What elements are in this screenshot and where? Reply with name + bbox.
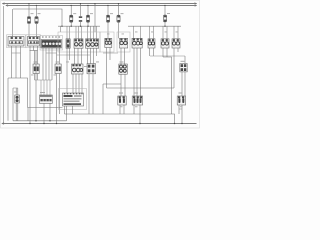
jog y50.5	[30, 50, 38, 52]
container X-box 7	[100, 32, 114, 52]
wire drops below X4	[67, 48, 70, 93]
B2 feeder drops	[41, 80, 50, 95]
label B5	[134, 93, 138, 94]
container A1 box	[59, 89, 87, 110]
wire drops below K7	[163, 48, 167, 57]
net y107.5	[28, 107, 63, 109]
riser x28 to net G	[27, 108, 29, 121]
mid jog y53 left	[46, 52, 57, 54]
jog x171.5 to bus	[172, 114, 175, 124]
fuse F1	[27, 4, 30, 37]
wire drops below K5 to B5	[134, 48, 141, 96]
relay K1	[74, 39, 83, 48]
wire drops below X6	[182, 72, 185, 96]
fuse holder R1	[33, 64, 39, 74]
connector X4 (narrow)	[66, 39, 70, 48]
net y84	[103, 83, 121, 85]
connector X5	[87, 64, 96, 74]
relay K4	[120, 38, 128, 48]
container X-box 3	[40, 36, 63, 51]
wire drops below K4 to R5	[121, 48, 125, 64]
connector block X1	[8, 37, 24, 47]
mid jog y55	[57, 54, 91, 56]
control unit A1 (text box)	[63, 93, 84, 106]
mid jog y53 right	[103, 52, 118, 54]
net E drops	[61, 26, 97, 38]
relay K10	[119, 64, 128, 74]
wire drops below X1	[12, 46, 21, 78]
relay K5	[132, 38, 142, 48]
motor M2	[132, 96, 142, 105]
connector X6	[180, 64, 187, 72]
fuse F5	[106, 5, 109, 38]
wire drops below K10	[121, 74, 125, 96]
relay K3	[105, 38, 112, 47]
wires below M3	[179, 105, 182, 124]
label B4	[119, 93, 123, 94]
wire drops below X3	[43, 48, 60, 80]
junction dots top-left	[28, 3, 37, 6]
wire drops below K9 to B3	[73, 74, 82, 93]
relay K9	[72, 64, 84, 74]
label K10	[120, 62, 124, 63]
wire drops below X5	[89, 74, 93, 114]
wire drops below K6	[150, 48, 154, 56]
power bus 15 (top rail B)	[6, 4, 197, 6]
container X-box 2	[26, 35, 41, 48]
fuse F7	[163, 5, 166, 26]
relay K2	[86, 39, 99, 48]
lamp E1	[13, 88, 19, 121]
net G (y120)	[13, 120, 67, 122]
wires below A1	[65, 106, 73, 121]
fuse F2	[35, 5, 38, 36]
riser to R6	[184, 56, 186, 64]
motor M3	[177, 96, 185, 105]
motor M1	[118, 96, 126, 105]
net D distribution (right)	[128, 25, 181, 27]
jog y57 and long drop x171.5	[163, 57, 172, 114]
feeders to R1	[35, 51, 38, 65]
riser x36 to net G	[35, 51, 37, 121]
ground bus (bottom rail)	[2, 123, 197, 125]
fuse F4	[86, 5, 89, 26]
net y88	[107, 87, 175, 89]
riser x121 to M1	[120, 84, 122, 96]
wire drop x95	[94, 4, 96, 32]
container X-box left	[7, 35, 26, 48]
relay K6	[148, 39, 155, 48]
tiny labels near fuses	[14, 13, 183, 107]
container X-box 8	[117, 32, 130, 52]
wire drops below K8	[174, 48, 178, 88]
label R2	[56, 62, 60, 63]
wire drops below R1	[35, 74, 38, 81]
power bus 30 (top rail A)	[2, 3, 197, 5]
wire drops below X2 (to ground bus)	[30, 46, 38, 124]
wire below B2	[44, 103, 50, 123]
jog y56 right	[150, 55, 185, 57]
jog to x27	[12, 78, 28, 108]
riser x103 down to net F	[102, 84, 104, 114]
wire net C (y9 feeder)	[13, 9, 62, 26]
label B2	[40, 92, 45, 93]
terminal strip X3 (wide)	[41, 36, 62, 48]
wire drops below R2	[57, 74, 60, 124]
ground bus junction dots	[29, 120, 182, 124]
container X-box 4/5/6	[58, 32, 100, 52]
label R6	[181, 61, 185, 62]
net E distribution (mid)	[58, 25, 100, 27]
net F (y114)	[65, 113, 172, 115]
wire drops below K2 to R4	[88, 48, 97, 63]
label B6	[179, 93, 183, 94]
fuse F3	[70, 5, 73, 26]
fuse F6	[117, 4, 120, 39]
jog y80 to B2 pins	[35, 79, 53, 81]
relay K7	[161, 39, 169, 48]
left rail vertical	[3, 6, 5, 124]
wire drop x13 to X1	[12, 9, 14, 37]
label R1	[34, 62, 38, 63]
wire drops below K1 to R3	[75, 48, 82, 64]
relay K8	[172, 39, 180, 48]
jog y109	[179, 108, 182, 110]
jog y53 X1 pins	[12, 52, 21, 54]
wire drops below K3	[107, 48, 111, 89]
shunt S1	[79, 4, 82, 27]
control unit B2	[40, 95, 53, 103]
fuse holder R2	[55, 64, 61, 74]
branch x8 down to net G	[8, 78, 12, 121]
junction dots on buses (fuse feeds)	[71, 3, 166, 6]
wires below M1	[120, 105, 124, 114]
wires below M2	[134, 105, 140, 124]
net D drops to relays	[134, 26, 179, 38]
connector block X2	[28, 37, 40, 47]
